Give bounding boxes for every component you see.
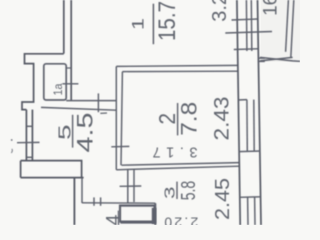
balcony cross a <box>260 57 300 61</box>
wall W8 room2 left (double) <box>115 66 117 169</box>
bath tub <box>120 206 155 222</box>
bath tub bottom heavy edge <box>121 222 155 224</box>
shaft crossing tick y32 (long) <box>225 32 272 34</box>
shaft hatch bottom a <box>247 197 249 225</box>
wall W2 stepped exterior contour left <box>22 54 64 110</box>
svg-text:1а: 1а <box>51 83 65 95</box>
shaft hatch bottom b <box>254 197 256 225</box>
svg-text:5.8: 5.8 <box>177 181 200 201</box>
shaft crossing y100 <box>238 99 247 101</box>
door D3 tick on W10 <box>120 185 142 187</box>
dash after 4.5 <box>100 112 107 114</box>
window N1 end rung bottom <box>26 156 32 158</box>
speck left a <box>11 139 13 141</box>
door D2 tick on W6 <box>97 93 99 112</box>
svg-text:4.5: 4.5 <box>73 113 98 153</box>
svg-text:2.45: 2.45 <box>212 178 234 220</box>
label room 4 fraction bar <box>118 211 120 225</box>
svg-text:15.7: 15.7 <box>154 1 181 41</box>
balcony stub lines right <box>258 58 265 61</box>
shaft hatch mid a <box>246 100 248 152</box>
label room 1 fraction bar <box>152 4 154 45</box>
wall W10 room3 left (double) <box>127 169 129 202</box>
label room 2 fraction bar <box>177 103 179 135</box>
wall W5 corridor/room4 horizontal <box>82 202 155 204</box>
notch under box 1a top-right <box>66 67 71 69</box>
wall W1 left exterior top (double) <box>63 0 65 54</box>
svg-text:16: 16 <box>261 0 282 16</box>
wall W4 room4 left (double) <box>73 178 75 225</box>
wall W11 stub right of tub <box>154 203 156 225</box>
wall W9 room2/room3 (double) <box>122 163 240 166</box>
shaft crossing tick y19 <box>232 19 258 20</box>
faint scan haze right of shaft column <box>261 0 300 62</box>
shaft crossing y151 <box>239 150 261 153</box>
shaft hatch mid b <box>253 100 255 152</box>
shaft hatch top a <box>245 0 248 51</box>
svg-text:7.8: 7.8 <box>177 102 202 136</box>
svg-text:5: 5 <box>55 125 75 141</box>
svg-text:3.17: 3.17 <box>153 144 198 160</box>
tub right dark fill <box>152 208 156 224</box>
label room 5 fraction bar <box>72 115 74 148</box>
shaft hatch top b <box>250 0 253 51</box>
window N1 end rung top <box>26 125 32 127</box>
window N2 tick on W8 <box>111 145 129 147</box>
wall W6 below alcove (outer edge) <box>66 100 116 102</box>
balcony cross b <box>260 57 293 61</box>
shaft column left edge <box>237 0 240 225</box>
room 1a storage box <box>44 64 66 100</box>
shaft crossing y197 <box>240 196 261 199</box>
window N1 left wall (double line) <box>25 110 27 161</box>
svg-text:1: 1 <box>129 18 148 30</box>
shaft column right edge <box>258 0 262 225</box>
shaft crossing tick y49 <box>234 48 258 51</box>
wall W6 inner edge <box>41 107 116 110</box>
wall W3 thick bar bottom-left <box>21 161 84 178</box>
speck left b <box>11 149 12 153</box>
svg-text:3: 3 <box>161 187 178 200</box>
svg-text:2.43: 2.43 <box>210 96 234 140</box>
svg-text:4: 4 <box>104 214 125 225</box>
window N1 centre tick <box>17 141 40 143</box>
leader line of label 1a <box>62 83 78 85</box>
wall W7 room1/room2 (double) <box>116 65 237 66</box>
label room 3 fraction bar <box>176 182 178 199</box>
svg-text:3.2: 3.2 <box>209 0 231 22</box>
door D1 ticks on W5 <box>93 197 95 205</box>
balcony wedge left leaf <box>286 0 289 52</box>
balcony wedge right leaf <box>291 0 294 58</box>
svg-text:2.20: 2.20 <box>164 215 198 225</box>
